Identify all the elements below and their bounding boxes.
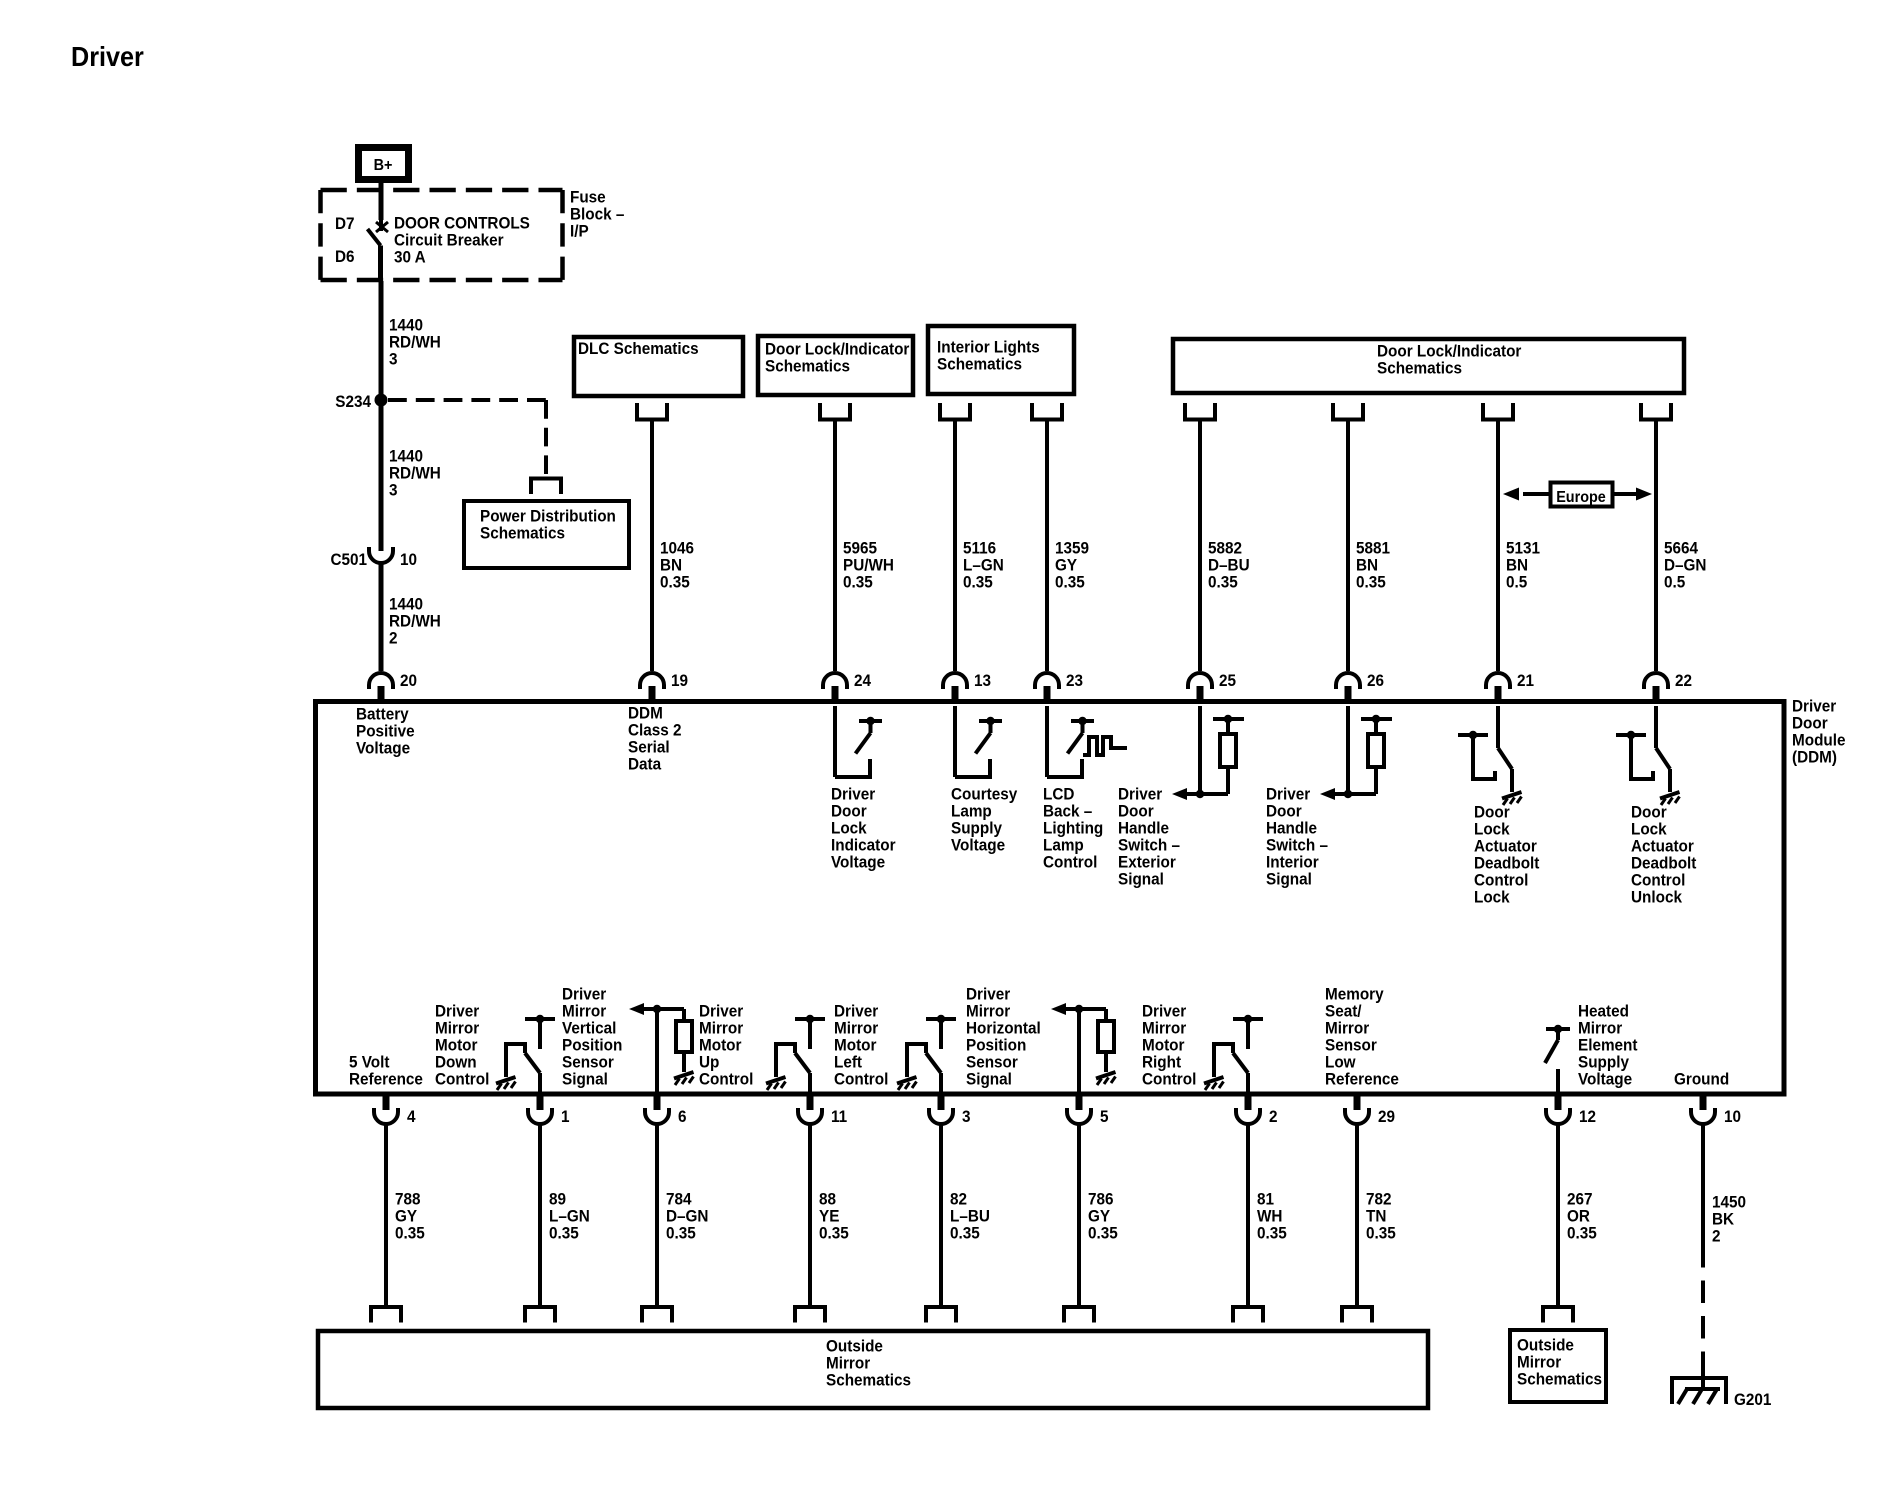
sensor: Driver Door Handle Switch Exterior (pin 25) <box>1172 706 1244 800</box>
svg-text:3: 3 <box>389 481 398 500</box>
svg-text:I/P: I/P <box>570 222 589 241</box>
svg-text:10: 10 <box>1724 1107 1741 1126</box>
svg-text:25: 25 <box>1219 671 1236 690</box>
label Driver Mirror Motor Up Control <box>699 1002 753 1089</box>
pin 12 (bottom) <box>1546 1093 1596 1126</box>
svg-text:0.35: 0.35 <box>1366 1224 1396 1243</box>
wire 5882 D–BU 0.35 <box>1200 420 1250 671</box>
node Battery Positive Voltage <box>356 705 415 758</box>
circuit breaker D7/D6 30A <box>368 220 389 281</box>
pin 6 (bottom) <box>645 1093 687 1126</box>
node 5 Volt Reference (pin 4) <box>349 1053 423 1089</box>
wire 82 L–BU 0.35 <box>941 1123 990 1307</box>
svg-text:29: 29 <box>1378 1107 1395 1126</box>
svg-text:Voltage: Voltage <box>831 853 885 872</box>
svg-text:0.35: 0.35 <box>395 1224 425 1243</box>
svg-text:DLC Schematics: DLC Schematics <box>578 339 699 358</box>
svg-text:Control: Control <box>1043 853 1097 872</box>
connector bracket DLC <box>637 403 667 420</box>
svg-text:0.35: 0.35 <box>549 1224 579 1243</box>
svg-text:Signal: Signal <box>562 1070 608 1089</box>
switch: Driver Mirror Motor Down Control (pin 1) <box>496 1015 555 1092</box>
svg-text:Schematics: Schematics <box>1517 1370 1602 1389</box>
svg-text:Unlock: Unlock <box>1631 888 1682 907</box>
wire 5881 BN 0.35 <box>1348 420 1390 671</box>
svg-text:0.35: 0.35 <box>1055 573 1085 592</box>
svg-text:Signal: Signal <box>966 1070 1012 1089</box>
pin 3 (bottom) <box>929 1093 971 1126</box>
connector bracket wide box x=1498 <box>1483 403 1513 420</box>
pin 4 (bottom) <box>374 1093 416 1126</box>
svg-text:0.35: 0.35 <box>1567 1224 1597 1243</box>
svg-text:Voltage: Voltage <box>951 836 1005 855</box>
svg-text:G201: G201 <box>1734 1390 1771 1409</box>
pin 29 (bottom) <box>1345 1093 1395 1126</box>
pin 2 (bottom) <box>1236 1093 1278 1126</box>
svg-text:21: 21 <box>1517 671 1534 690</box>
Power Distribution Schematics box <box>464 501 629 568</box>
svg-text:0.5: 0.5 <box>1506 573 1527 592</box>
connector bracket wide box x=1656 <box>1641 403 1671 420</box>
svg-text:Signal: Signal <box>1266 870 1312 889</box>
connector bracket Outside Mirror x=657 <box>642 1307 672 1323</box>
switch: Driver Mirror Motor Right Control (pin 2) <box>1204 1015 1263 1092</box>
label Driver Door Handle Switch - Interior Signal <box>1266 785 1328 889</box>
fuse block labels <box>335 188 624 267</box>
switch with PWM: LCD Back-Lighting Lamp Control (pin 23) <box>1047 706 1127 777</box>
svg-text:23: 23 <box>1066 671 1083 690</box>
svg-text:Ground: Ground <box>1674 1070 1729 1089</box>
wire 81 WH 0.35 <box>1248 1123 1287 1307</box>
svg-text:0.35: 0.35 <box>1257 1224 1287 1243</box>
connector bracket Interior Lights pin13 <box>940 403 970 420</box>
ground G201 <box>1672 1372 1771 1409</box>
svg-text:0.35: 0.35 <box>1088 1224 1118 1243</box>
svg-text:Control: Control <box>834 1070 888 1089</box>
connector bracket Outside Mirror x=386 <box>371 1307 401 1323</box>
switch: Driver Mirror Motor Up Control (pin 11) <box>766 1015 825 1092</box>
svg-text:Schematics: Schematics <box>826 1371 911 1390</box>
switch: Courtesy Lamp Supply Voltage (pin 13) <box>955 706 1002 777</box>
DDM name label <box>1792 697 1846 767</box>
label Driver Mirror Motor Right Control <box>1142 1002 1196 1089</box>
svg-text:Reference: Reference <box>1325 1070 1399 1089</box>
Door Lock/Indicator Schematics box (left) <box>758 336 913 395</box>
Driver Door Module (DDM) box <box>316 702 1785 1095</box>
svg-text:Control: Control <box>1142 1070 1196 1089</box>
connector bracket Outside Mirror small box <box>1543 1307 1573 1323</box>
pin 24 (top) <box>823 671 871 703</box>
connector bracket Door Lock left <box>820 403 850 420</box>
svg-text:24: 24 <box>854 671 871 690</box>
pin 22 (top) <box>1644 671 1692 703</box>
label Courtesy Lamp Supply Voltage <box>951 785 1017 855</box>
Door Lock/Indicator Schematics box (wide) <box>1173 339 1684 393</box>
label Driver Door Handle Switch - Exterior Signal <box>1118 785 1180 889</box>
wire 1359 GY 0.35 <box>1047 420 1089 671</box>
svg-text:2: 2 <box>389 629 398 648</box>
svg-text:Reference: Reference <box>349 1070 423 1089</box>
title Driver <box>71 41 144 73</box>
svg-text:30 A: 30 A <box>394 248 426 267</box>
pin 5 (bottom) <box>1067 1093 1109 1126</box>
DLC Schematics box <box>574 337 743 396</box>
svg-text:11: 11 <box>831 1107 847 1126</box>
wire 786 GY 0.35 <box>1079 1123 1118 1307</box>
svg-text:2: 2 <box>1269 1107 1278 1126</box>
power node B+ <box>359 148 409 180</box>
pin 19 (top) <box>640 671 688 703</box>
pin 20 (top) <box>369 671 417 703</box>
svg-text:(DDM): (DDM) <box>1792 748 1837 767</box>
svg-text:D6: D6 <box>335 247 355 266</box>
connector bracket Outside Mirror x=810 <box>795 1307 825 1323</box>
sensor: Driver Mirror Horizontal Position (pin 5) <box>1051 1003 1116 1092</box>
wire 782 TN 0.35 <box>1357 1123 1396 1307</box>
switch: Heated Mirror Element Supply Voltage (pin 12) <box>1545 1025 1570 1092</box>
svg-text:Europe: Europe <box>1556 488 1606 506</box>
wire 788 GY 0.35 <box>386 1123 425 1307</box>
svg-text:B+: B+ <box>374 156 393 174</box>
svg-text:19: 19 <box>671 671 688 690</box>
connector bracket Outside Mirror x=1248 <box>1233 1307 1263 1323</box>
svg-text:0.35: 0.35 <box>660 573 690 592</box>
svg-text:0.35: 0.35 <box>963 573 993 592</box>
pin 10 (bottom) <box>1691 1093 1741 1126</box>
label LCD Back-Lighting Lamp Control <box>1043 785 1103 872</box>
svg-text:6: 6 <box>678 1107 687 1126</box>
dashed wire S234 to Power Distribution <box>388 400 546 474</box>
svg-text:0.35: 0.35 <box>950 1224 980 1243</box>
svg-text:C501: C501 <box>330 550 367 569</box>
svg-text:Signal: Signal <box>1118 870 1164 889</box>
svg-text:Lock: Lock <box>1474 888 1510 907</box>
connector bracket Outside Mirror x=1079 <box>1064 1307 1094 1323</box>
connector bracket (Power Distribution) <box>531 479 561 495</box>
Europe variant tag <box>1503 483 1652 507</box>
node Ground (pin 10) <box>1674 1070 1729 1089</box>
svg-text:20: 20 <box>400 671 417 690</box>
connector bracket wide box x=1348 <box>1333 403 1363 420</box>
label Driver Door Lock Indicator Voltage <box>831 785 896 872</box>
wire B+ to circuit breaker <box>379 183 384 220</box>
connector bracket Outside Mirror x=540 <box>525 1307 555 1323</box>
label Driver Mirror Vertical Position Sensor Signal <box>562 985 622 1089</box>
wire 1440 RD/WH 2 <box>381 562 441 671</box>
svg-text:0.35: 0.35 <box>666 1224 696 1243</box>
svg-text:22: 22 <box>1675 671 1692 690</box>
label Driver Mirror Motor Left Control <box>834 1002 888 1089</box>
switch: Door Lock Actuator Deadbolt Control Lock (pin 21) <box>1458 706 1522 805</box>
svg-text:4: 4 <box>407 1107 416 1126</box>
label Door Lock Actuator Deadbolt Control Unlock <box>1631 803 1697 907</box>
wire 1046 BN 0.35 <box>652 420 694 671</box>
svg-text:Schematics: Schematics <box>937 355 1022 374</box>
connector bracket Outside Mirror x=941 <box>926 1307 956 1323</box>
svg-text:1: 1 <box>561 1107 570 1126</box>
label Heated Mirror Element Supply Voltage <box>1578 1002 1638 1089</box>
svg-text:D7: D7 <box>335 214 355 233</box>
connector bracket wide box x=1200 <box>1185 403 1215 420</box>
wire 89 L–GN 0.35 <box>540 1123 590 1307</box>
node DDM Class 2 Serial Data <box>628 704 682 774</box>
fuse block I/P box <box>321 190 563 280</box>
Interior Lights Schematics box <box>928 326 1074 394</box>
svg-text:Control: Control <box>435 1070 489 1089</box>
switch: Driver Door Lock Indicator Voltage (pin 24) <box>835 706 882 777</box>
wire 5965 PU/WH 0.35 <box>835 420 894 671</box>
wire 5664 D–GN 0.5 <box>1656 420 1706 671</box>
label Driver Mirror Motor Down Control <box>435 1002 489 1089</box>
svg-text:Schematics: Schematics <box>765 357 850 376</box>
wire 88 YE 0.35 <box>810 1123 849 1307</box>
wire 267 OR 0.35 <box>1558 1123 1597 1307</box>
svg-text:Voltage: Voltage <box>1578 1070 1632 1089</box>
wire 1450 BK 2 to G201 <box>1703 1123 1746 1373</box>
svg-text:0.35: 0.35 <box>1356 573 1386 592</box>
svg-text:Driver: Driver <box>71 41 144 73</box>
Outside Mirror Schematics box (wide) <box>318 1331 1428 1408</box>
svg-text:Control: Control <box>699 1070 753 1089</box>
pin 1 (bottom) <box>528 1093 570 1126</box>
svg-text:0.35: 0.35 <box>1208 573 1238 592</box>
switch: Door Lock Actuator Deadbolt Control Unlock (pin 22) <box>1616 706 1680 805</box>
pin 21 (top) <box>1486 671 1534 703</box>
svg-text:12: 12 <box>1579 1107 1596 1126</box>
switch: Driver Mirror Motor Left Control (pin 3) <box>897 1015 956 1092</box>
svg-text:0.5: 0.5 <box>1664 573 1685 592</box>
node Memory Seat/Mirror Sensor Low Reference (pin 29) <box>1325 985 1399 1089</box>
svg-text:13: 13 <box>974 671 991 690</box>
wire 1440 RD/WH 3 (upper) <box>381 281 441 400</box>
svg-text:Schematics: Schematics <box>480 524 565 543</box>
svg-text:10: 10 <box>400 550 417 569</box>
connector bracket Interior Lights pin23 <box>1032 403 1062 420</box>
svg-text:Schematics: Schematics <box>1377 359 1462 378</box>
svg-text:0.35: 0.35 <box>819 1224 849 1243</box>
pin 26 (top) <box>1336 671 1384 703</box>
sensor: Driver Mirror Vertical Position (pin 6) <box>629 1003 694 1092</box>
wire 784 D–GN 0.35 <box>657 1123 708 1307</box>
svg-text:0.35: 0.35 <box>843 573 873 592</box>
svg-text:3: 3 <box>389 350 398 369</box>
wire 1440 RD/WH 3 (lower) <box>381 406 441 551</box>
label Door Lock Actuator Deadbolt Control Lock <box>1474 803 1540 907</box>
svg-text:Voltage: Voltage <box>356 739 410 758</box>
connector bracket Outside Mirror x=1357 <box>1342 1307 1372 1323</box>
pin 25 (top) <box>1188 671 1236 703</box>
sensor: Driver Door Handle Switch Interior (pin 26) <box>1320 706 1392 800</box>
svg-text:2: 2 <box>1712 1227 1721 1246</box>
svg-text:S234: S234 <box>335 392 371 411</box>
svg-text:Data: Data <box>628 755 662 774</box>
connector C501 pin 10 <box>330 547 417 569</box>
svg-text:3: 3 <box>962 1107 971 1126</box>
label Driver Mirror Horizontal Position Sensor Signal <box>966 985 1041 1089</box>
splice S234 <box>335 392 387 411</box>
pin 11 (bottom) <box>798 1093 847 1126</box>
pin 23 (top) <box>1035 671 1083 703</box>
Outside Mirror Schematics box (small) <box>1510 1330 1606 1402</box>
wire 5116 L–GN 0.35 <box>955 420 1004 671</box>
wire 5131 BN 0.5 <box>1498 420 1540 671</box>
svg-text:26: 26 <box>1367 671 1384 690</box>
svg-text:5: 5 <box>1100 1107 1109 1126</box>
pin 13 (top) <box>943 671 991 703</box>
